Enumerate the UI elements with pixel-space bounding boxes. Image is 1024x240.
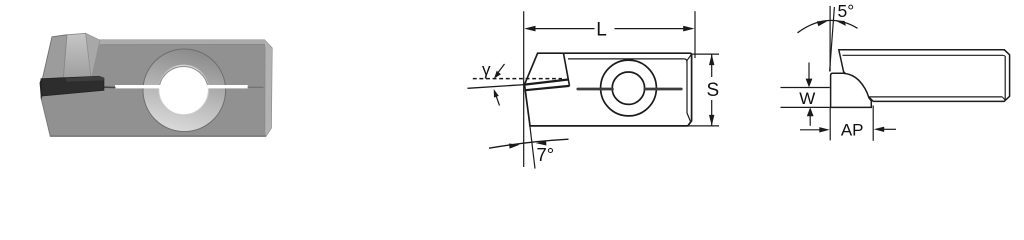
gamma angle lower arrow [494,89,500,106]
5 degree angle arc [798,20,858,32]
front view beak bottom braze edge [525,86,569,90]
svg-text:S: S [706,80,719,101]
3D neck left face [42,35,67,79]
gamma angle upper arrow [494,64,505,79]
dimension L extension line left [523,11,525,167]
dimension AP right extension line [872,106,874,141]
3D body right bevel sliver [265,40,273,136]
7 degree clearance extension line [530,126,535,169]
front view insert body outline [525,53,692,126]
svg-text:7°: 7° [537,144,555,165]
3D body top bevel band [97,40,269,45]
3D neck right face [64,33,101,79]
3D white slot line [104,85,264,88]
front view slot line right [645,88,682,91]
dimension S top extension line [692,53,719,55]
3D body bottom edge line [50,135,266,137]
side view bar inner top line [843,54,1004,56]
dimension W bottom extension line [781,106,830,108]
side view bar inner bottom line [868,96,1002,98]
dimension AP left extension line [829,108,831,141]
side view bar inner right vertical [1002,55,1005,100]
svg-text:W: W [799,89,815,108]
dimension AP left arrow [800,127,830,132]
3D center hole [159,65,209,115]
front view slot line left [578,88,613,91]
dimension W upper arrow [806,63,813,88]
dimension S bottom extension line [688,125,719,127]
5 degree vertical reference line [829,6,831,72]
dimension W lower arrow [807,107,814,125]
side view nose tip [831,73,872,107]
gamma rake edge extension line [468,85,525,89]
front view neck right edge [563,53,569,86]
front view beak top cutting edge [525,80,569,85]
5 degree arc left arrow [817,21,827,26]
side view bar outline [839,50,1010,102]
front view inner chamfer contour [568,55,691,122]
dimension S line and arrows [709,54,714,126]
7 degree angle arc [489,139,569,148]
front view screw hole inner circle [612,72,644,104]
3D countersink ring [143,49,226,132]
svg-text:AP: AP [841,120,864,139]
5 degree arc right arrow [836,21,846,26]
svg-text:L: L [596,19,607,40]
front view screw hole outer circle [601,60,657,116]
gamma dashed reference line [473,78,562,80]
3D insert body front face [41,40,272,136]
dimension L extension line right [694,11,696,58]
dimension L line and arrows [524,26,694,32]
7 degree arc right arrow [536,140,547,145]
dimension AP right arrow [874,127,896,132]
svg-text:5°: 5° [838,1,855,21]
svg-text:γ: γ [482,60,491,79]
dimension W top extension line [781,87,830,89]
7 degree arc left arrow [509,144,520,149]
3D black carbide tip [40,76,104,100]
5 degree slant line [830,7,835,72]
